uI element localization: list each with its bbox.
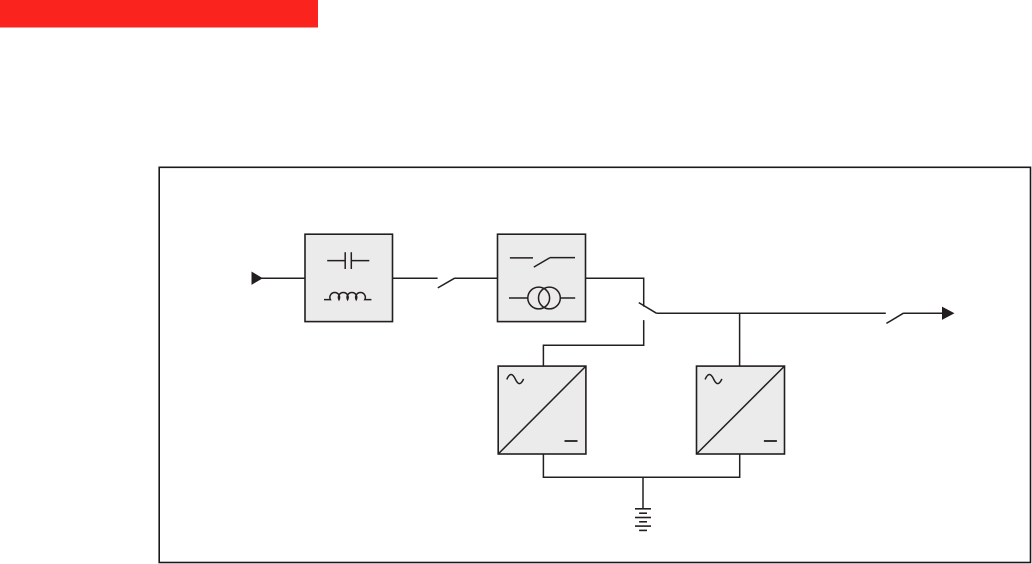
converter U1 AC sine symbol [507, 374, 524, 383]
converter U2 DC minus symbol [764, 440, 777, 442]
DC bus wire converter U1 to converter U2 [543, 454, 739, 477]
wire filter to switch Q1 [393, 277, 438, 279]
header red bar [0, 0, 318, 28]
converter U1 diagonal [498, 366, 586, 454]
inductor symbol [324, 293, 371, 300]
transformer symbol (two overlapping circles) [509, 287, 575, 309]
block bypass (switch + transformer) [498, 234, 586, 321]
converter U2 AC sine symbol [705, 374, 722, 383]
output arrow [943, 308, 954, 320]
static switch blade (node A) [639, 303, 657, 314]
converter U1 DC minus symbol [565, 440, 578, 442]
converter U2 diagonal [697, 366, 785, 454]
switch Q1 (input disconnector, open blade) [438, 278, 455, 288]
wire transformer block to node A [586, 278, 644, 306]
block converter U2 (inverter) [697, 366, 785, 454]
wire node A down to rectifier branch [543, 320, 643, 366]
block converter U1 (rectifier) [498, 366, 586, 454]
capacitor symbol [327, 252, 369, 269]
diagram frame [159, 167, 1030, 562]
wire switch Q2 to output arrow [903, 312, 943, 314]
battery lead wire [642, 477, 644, 508]
wire switch Q1 to transformer block [454, 277, 497, 279]
output bus wire [656, 312, 885, 314]
wire bus junction to inverter (converter 2) [739, 313, 741, 366]
input arrow [252, 272, 262, 284]
block filter (capacitor + inductor) [305, 234, 393, 321]
bypass internal switch symbol [510, 258, 575, 268]
output switch Q2 (open blade) [886, 313, 903, 323]
battery symbol [635, 509, 651, 531]
wire input to filter [261, 277, 305, 279]
